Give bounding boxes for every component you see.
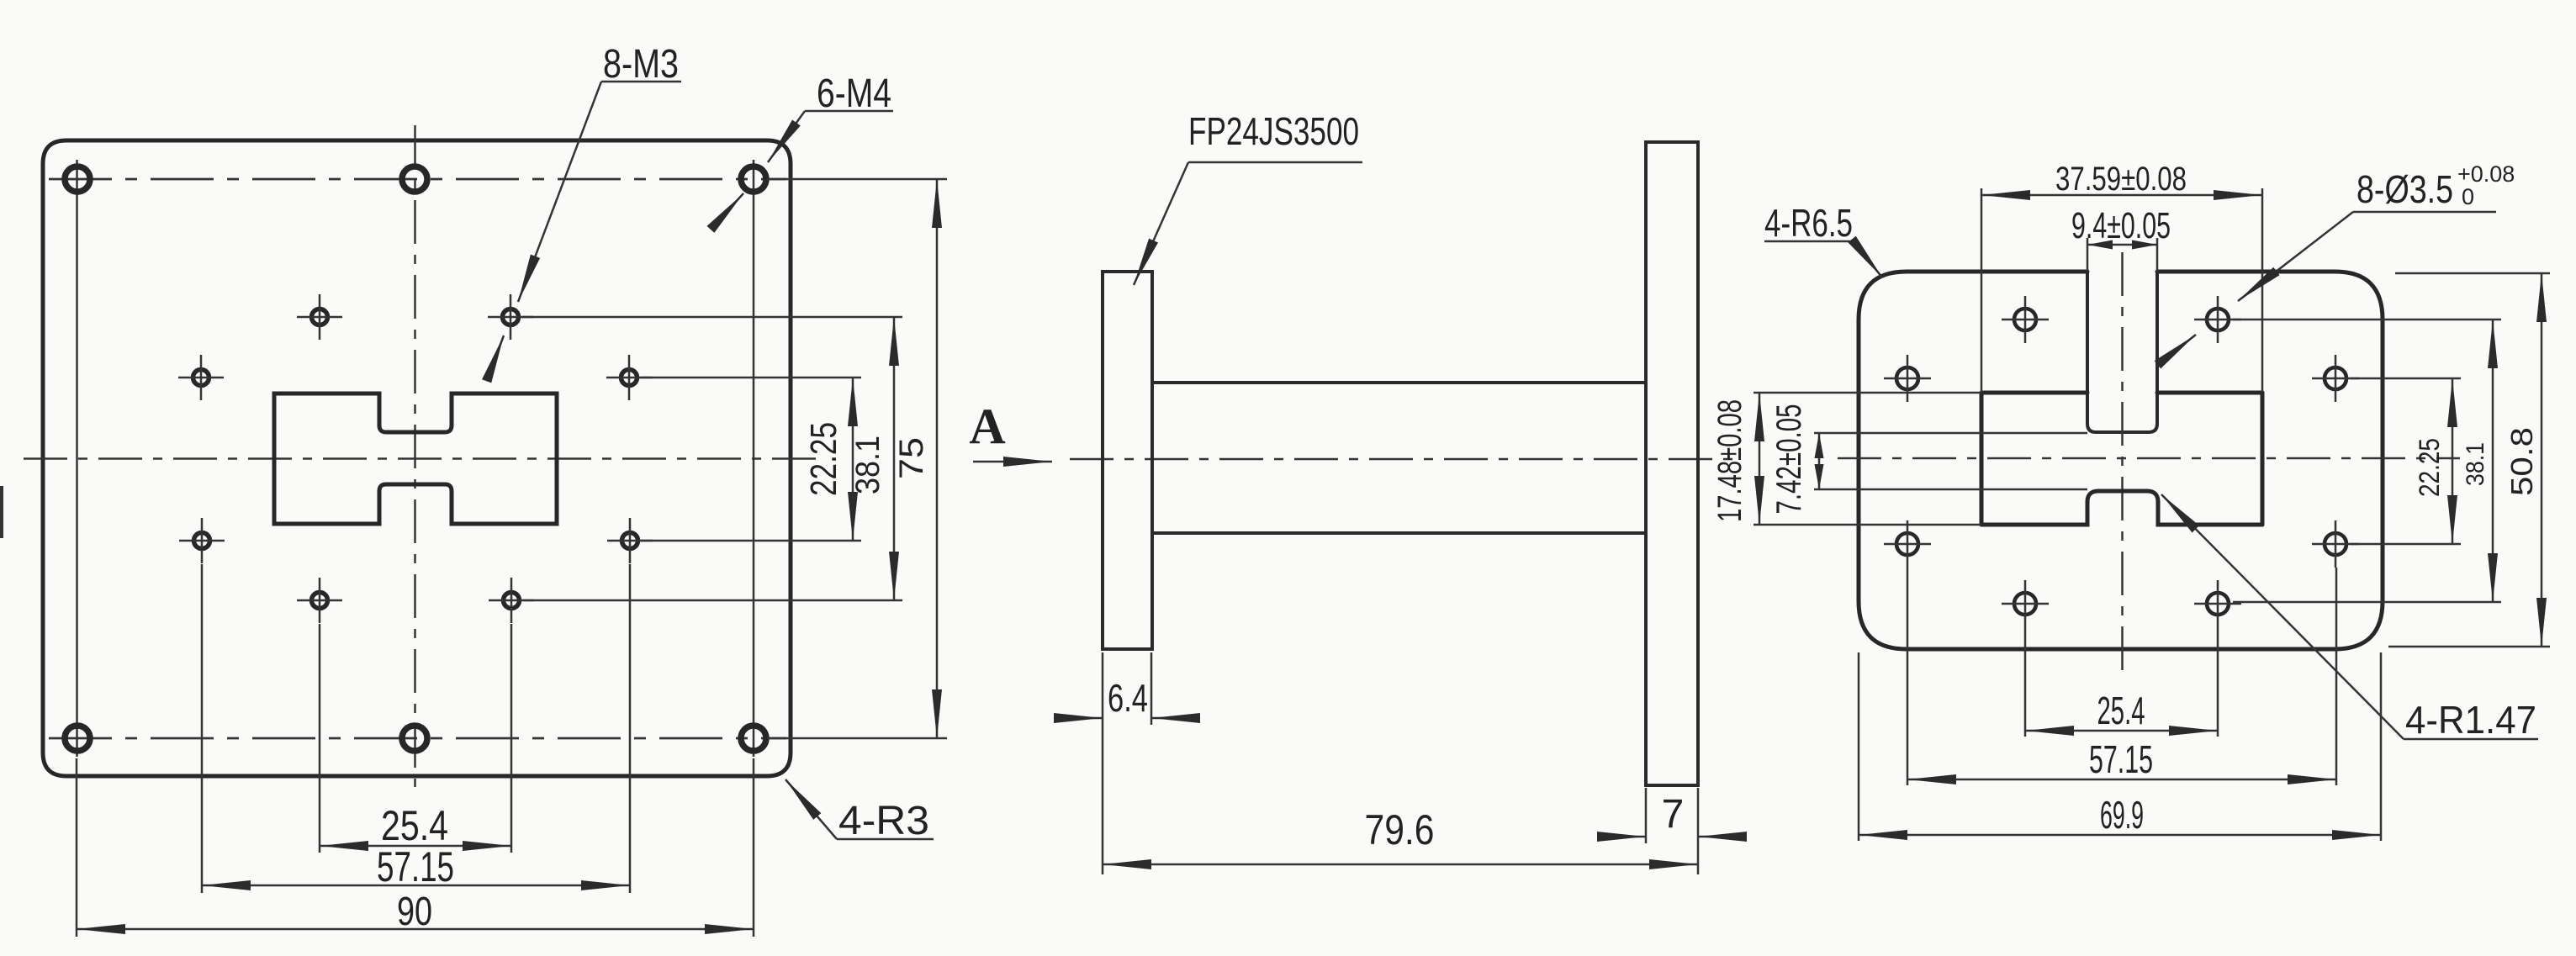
svg-text:90: 90 xyxy=(397,890,432,934)
svg-text:+0.08: +0.08 xyxy=(2457,161,2515,187)
svg-text:57.15: 57.15 xyxy=(377,843,454,890)
dim 37.59 line xyxy=(1981,194,2262,197)
svg-text:7: 7 xyxy=(1662,792,1685,837)
hole r4 xyxy=(2312,355,2359,402)
dim 7 extension lines xyxy=(1646,788,1698,874)
M4 hole bottom-left xyxy=(65,726,90,751)
dim 90 extension lines xyxy=(77,758,754,937)
right hole column line xyxy=(753,160,755,757)
M4 hole top-right xyxy=(741,166,766,192)
aperture sides xyxy=(1981,393,2262,525)
svg-text:4-R6.5: 4-R6.5 xyxy=(1764,201,1853,245)
dim 25.4 right extension lines xyxy=(2025,627,2218,737)
label 8-dia3.5 xyxy=(2172,161,2515,353)
svg-text:38.1: 38.1 xyxy=(2462,442,2489,486)
M3 hole 8 xyxy=(489,578,534,623)
dim 22.25 right line xyxy=(2452,378,2454,544)
dim 6.4 extension lines xyxy=(1103,652,1151,874)
dim 25.4 line xyxy=(320,845,511,848)
svg-text:6.4: 6.4 xyxy=(1108,676,1148,720)
M3 hole 2 xyxy=(488,294,533,340)
dim 9.4 extension lines xyxy=(2087,238,2157,271)
hole r2 xyxy=(2194,296,2241,343)
horizontal centerline xyxy=(24,457,820,460)
label 4-R1.47 xyxy=(2161,494,2538,742)
middle centerline xyxy=(1070,458,1734,461)
dim 38.1 line xyxy=(893,317,896,600)
hole r8 xyxy=(2194,580,2241,627)
dim 22.25 line xyxy=(852,378,854,541)
label 6-M4 xyxy=(717,71,893,222)
right view vertical centerline xyxy=(2121,252,2124,671)
svg-text:25.4: 25.4 xyxy=(2097,689,2145,732)
top slot xyxy=(2087,272,2157,432)
right flange outline with slot gap on top edge xyxy=(1859,272,2383,649)
hole r7 xyxy=(2002,580,2049,627)
M3 hole 6 xyxy=(607,518,653,563)
dim 57.15 extension lines xyxy=(202,564,630,893)
dim 79.6 line xyxy=(1103,864,1698,866)
aperture top edges xyxy=(1981,391,2262,395)
dim 7 arrows xyxy=(1602,836,1646,838)
dim 50.8 line xyxy=(2541,273,2543,647)
svg-text:22.25: 22.25 xyxy=(803,422,844,496)
svg-text:57.15: 57.15 xyxy=(2089,737,2153,781)
vertical centerline xyxy=(414,125,416,787)
dim 25.4 extension lines xyxy=(320,624,511,853)
dim 7.42 line xyxy=(1818,433,1821,489)
svg-text:79.6: 79.6 xyxy=(1365,806,1435,853)
svg-text:37.59±0.08: 37.59±0.08 xyxy=(2055,161,2187,198)
left flange outline xyxy=(43,140,791,776)
hole r3 xyxy=(1884,355,1931,402)
dim 57.15 line xyxy=(202,885,630,887)
dim 37.59 extension lines xyxy=(1981,188,2262,392)
small flange (left, side view) xyxy=(1103,272,1152,649)
svg-text:0: 0 xyxy=(2462,184,2474,209)
dim 57.15 right line xyxy=(1907,779,2336,781)
dim 7.42 extension lines xyxy=(1814,433,2087,489)
svg-text:69.9: 69.9 xyxy=(2100,793,2144,837)
dim 90 line xyxy=(77,928,754,931)
waveguide aperture (double ridge) xyxy=(274,393,557,524)
label 8-M3 xyxy=(494,42,681,362)
dim 22.25 extension lines xyxy=(641,378,861,541)
dim 69.9 extension lines xyxy=(1859,652,2381,841)
dim 75 line xyxy=(936,179,939,738)
dim 9.4 line xyxy=(2087,244,2157,246)
svg-text:6-M4: 6-M4 xyxy=(817,71,891,116)
svg-text:4-R3: 4-R3 xyxy=(838,799,929,843)
svg-text:8-M3: 8-M3 xyxy=(603,42,679,87)
dim 38.1 extension lines xyxy=(522,317,902,600)
dim 75 extension lines xyxy=(767,179,947,738)
svg-text:7.42±0.05: 7.42±0.05 xyxy=(1769,404,1808,515)
hole row centerline bottom xyxy=(49,737,786,740)
svg-text:A: A xyxy=(969,399,1005,454)
M4 hole bottom-middle xyxy=(402,726,427,751)
dim 17.48 line xyxy=(1759,393,1761,525)
label FP24JS3500 xyxy=(1134,109,1362,285)
svg-text:38.1: 38.1 xyxy=(849,436,886,494)
dim 69.9 line xyxy=(1859,834,2381,837)
svg-text:8-Ø3.5: 8-Ø3.5 xyxy=(2356,167,2453,211)
svg-text:25.4: 25.4 xyxy=(381,802,448,849)
hole r5 xyxy=(1884,520,1931,568)
dim 38.1 right line xyxy=(2492,320,2494,602)
svg-text:17.48±0.08: 17.48±0.08 xyxy=(1711,399,1748,522)
svg-text:50.8: 50.8 xyxy=(2505,427,2539,496)
M3 hole 3 xyxy=(178,355,224,400)
M3 hole 7 xyxy=(297,578,342,623)
svg-text:FP24JS3500: FP24JS3500 xyxy=(1188,109,1359,153)
svg-text:9.4±0.05: 9.4±0.05 xyxy=(2071,205,2171,246)
svg-text:4-R1.47: 4-R1.47 xyxy=(2405,698,2536,742)
label 4-R6.5 xyxy=(1764,201,1882,277)
hole r6 xyxy=(2312,520,2359,568)
dim 17.48 extension lines xyxy=(1753,393,1981,525)
waveguide tube top xyxy=(1152,381,1646,384)
dim 57.15 right extension lines xyxy=(1907,568,2336,785)
M3 hole 5 xyxy=(179,518,225,563)
hole row centerline top xyxy=(49,178,786,181)
M4 hole top-left xyxy=(65,166,90,192)
svg-text:75: 75 xyxy=(893,437,930,479)
M4 hole top-middle xyxy=(402,166,427,192)
M3 hole 4 xyxy=(606,355,652,400)
big flange (right, side view) xyxy=(1646,142,1698,785)
hole r1 xyxy=(2002,296,2049,343)
label 4-R3 xyxy=(785,779,934,843)
left hole column line xyxy=(76,160,78,757)
dim 22.25 right extension lines xyxy=(2351,378,2461,544)
M3 hole 1 xyxy=(297,294,342,340)
dim 6.4 arrows xyxy=(1058,717,1103,720)
waveguide tube bottom xyxy=(1152,531,1646,535)
right view horizontal centerline xyxy=(1838,457,2460,460)
dim 25.4 right line xyxy=(2025,730,2218,732)
dim 50.8 extension lines xyxy=(2388,273,2550,647)
M4 hole bottom-right xyxy=(741,726,766,751)
aperture bottom with ridge notch xyxy=(1981,491,2262,525)
scan edge artifact xyxy=(0,486,3,538)
svg-text:22.25: 22.25 xyxy=(2414,438,2446,497)
dim 38.1 right extension lines xyxy=(2233,320,2501,602)
